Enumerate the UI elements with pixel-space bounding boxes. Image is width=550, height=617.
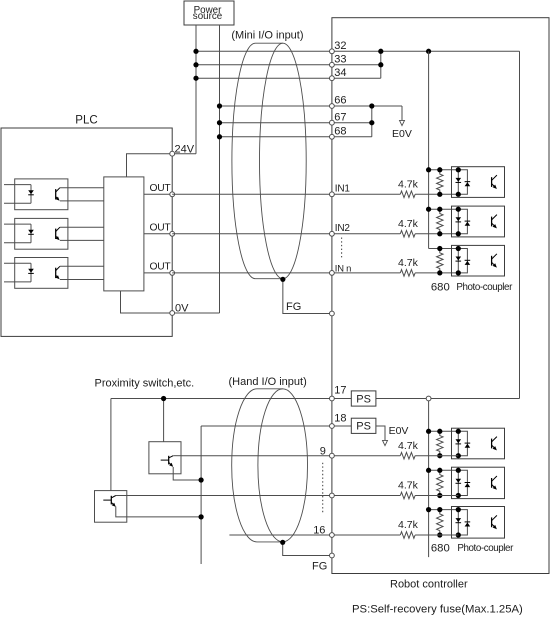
junction 680 bottom U6 xyxy=(437,532,442,537)
wire IN2 to coupler xyxy=(415,233,458,235)
junction diode bottom U5 xyxy=(456,493,461,498)
junction 33-tie xyxy=(378,62,383,67)
photo-coupler U5 box xyxy=(452,467,505,498)
opto-coupler PLC 1 box xyxy=(15,179,68,210)
wire OUT1 driver to PLC edge xyxy=(144,193,172,195)
wire Q2 emitter xyxy=(116,507,201,517)
resistor 680 row U6 xyxy=(437,510,443,535)
svg-text:9: 9 xyxy=(320,446,326,458)
photo-coupler U3 phototransistor xyxy=(491,256,493,266)
terminal 17 xyxy=(330,396,335,401)
junction diode top U1 xyxy=(456,167,461,172)
wire mid to coupler xyxy=(415,495,458,497)
photo-coupler U3 left diode column xyxy=(457,249,459,273)
svg-text:IN1: IN1 xyxy=(335,184,351,195)
photo-coupler U1 left diode column xyxy=(457,170,459,195)
wire INn to coupler xyxy=(415,272,458,274)
switch Q2 transistor xyxy=(103,499,111,501)
junction 680 bottom U4 xyxy=(437,453,442,458)
svg-text:(Hand I/O input): (Hand I/O input) xyxy=(229,376,307,388)
wire 9 line xyxy=(181,455,400,457)
wire row U6 top rail xyxy=(429,509,459,511)
opto-coupler PLC 3 phototransistor xyxy=(55,268,57,278)
robot controller box xyxy=(332,18,549,574)
junction 680 bottom U1 xyxy=(437,192,442,197)
opto-coupler PLC 1 input leads xyxy=(4,184,31,186)
wire 33 line xyxy=(196,64,381,66)
PLC terminal OUT2 xyxy=(170,231,175,236)
photo-coupler U4 diode down xyxy=(456,439,462,443)
photo-coupler U5 phototransistor xyxy=(491,478,493,488)
svg-text:E0V: E0V xyxy=(389,425,409,437)
wire 67 line xyxy=(220,122,372,124)
svg-text:Photo-coupler: Photo-coupler xyxy=(456,282,513,293)
svg-text:FG: FG xyxy=(312,561,327,573)
junction diode top U6 xyxy=(456,507,461,512)
wire 0V to PLC xyxy=(172,312,219,314)
junction diode top U2 xyxy=(456,207,461,212)
photo-coupler U4 phototransistor xyxy=(491,439,493,449)
resistor 4.7k IN2 xyxy=(400,231,415,238)
junction 24V-33 xyxy=(193,62,198,67)
svg-text:PS: PS xyxy=(356,421,371,433)
switch Q1 transistor xyxy=(161,459,169,461)
wire power source left leg 24V rail xyxy=(195,25,197,154)
junction 680 top U1 xyxy=(437,167,442,172)
junction long vertical row U5 xyxy=(426,468,431,473)
svg-text:OUT: OUT xyxy=(150,223,172,234)
resistor 680 row U3 xyxy=(437,249,443,273)
switch Q2 box xyxy=(95,491,127,523)
opto-coupler PLC 1 LED diode xyxy=(28,190,34,194)
wire PLC 0V internal xyxy=(121,291,173,313)
photo-coupler U1 box xyxy=(452,167,505,198)
wire tie 32-33-34 xyxy=(380,51,382,78)
photo-coupler U4 left diode column xyxy=(457,431,459,455)
svg-text:4.7k: 4.7k xyxy=(398,218,419,230)
wire PS2 to E0V xyxy=(376,426,385,440)
wire OUT to INn xyxy=(172,272,400,274)
junction 680 bottom U3 xyxy=(437,270,442,275)
svg-text:OUT: OUT xyxy=(150,183,172,194)
cable Mini I/O tube outline xyxy=(232,43,283,279)
junction 680 top U5 xyxy=(437,468,442,473)
junction 0V-67 xyxy=(217,120,222,125)
cable Mini I/O end-cap ellipse xyxy=(260,43,307,279)
junction 32-longvertical xyxy=(426,49,431,54)
svg-text:67: 67 xyxy=(334,111,346,123)
photo-coupler U1 phototransistor xyxy=(491,177,493,187)
wire long vertical top section xyxy=(428,51,430,248)
opto-coupler PLC 3 LED column xyxy=(30,263,32,282)
terminal 18 xyxy=(330,424,335,429)
svg-text:4.7k: 4.7k xyxy=(398,519,419,531)
photo-coupler U2 diode down xyxy=(456,217,462,221)
photo-coupler U3 diode loop xyxy=(458,249,467,273)
wire row U2 top rail xyxy=(429,208,459,210)
wire 34 line xyxy=(196,77,381,79)
wire 17 line xyxy=(111,398,520,400)
photo-coupler U4 box xyxy=(452,428,505,459)
opto-coupler PLC 3 box xyxy=(15,258,68,289)
svg-text:FG: FG xyxy=(286,301,301,313)
PLC terminal OUT1 xyxy=(170,192,175,197)
wire 66 line xyxy=(220,105,403,107)
opto-coupler PLC 2 phototransistor xyxy=(55,229,57,239)
svg-text:33: 33 xyxy=(334,53,346,65)
wire 18 line xyxy=(201,425,351,427)
junction diode bottom U3 xyxy=(456,270,461,275)
junction 67-tie xyxy=(369,120,374,125)
terminal FG xyxy=(330,553,335,558)
wire opto 2 collector to driver xyxy=(60,226,104,228)
svg-text:24V: 24V xyxy=(175,143,195,155)
photo-coupler U2 phototransistor xyxy=(491,217,493,227)
svg-text:PS:Self-recovery fuse(Max.1.25: PS:Self-recovery fuse(Max.1.25A) xyxy=(352,604,523,616)
wire 16 to coupler xyxy=(415,534,458,536)
terminal 68 xyxy=(330,134,335,139)
svg-text:IN2: IN2 xyxy=(335,223,351,234)
resistor 4.7k IN1 xyxy=(400,191,415,198)
junction FG top cable xyxy=(280,277,285,282)
resistor 4.7k 9 xyxy=(400,452,415,459)
terminal FG xyxy=(330,311,335,316)
svg-text:4.7k: 4.7k xyxy=(398,257,419,269)
junction diode bottom U1 xyxy=(456,192,461,197)
junction diode top U4 xyxy=(456,429,461,434)
junction diode bottom U4 xyxy=(456,453,461,458)
svg-text:OUT: OUT xyxy=(150,262,172,273)
wire FG bottom xyxy=(283,542,332,556)
junction 680 bottom U5 xyxy=(437,493,442,498)
wire E0V return vertical xyxy=(200,426,202,564)
junction FG bottom cable xyxy=(280,540,285,545)
PLC terminal OUT3 xyxy=(170,271,175,276)
junction long vertical row U2 xyxy=(426,207,431,212)
wire OUT2 driver to PLC edge xyxy=(144,233,172,235)
photo-coupler U3 diode down xyxy=(456,257,462,261)
terminal 16 xyxy=(330,533,335,538)
photo-coupler U4 diode loop xyxy=(458,431,467,455)
opto-coupler PLC 3 LED diode xyxy=(28,269,34,273)
photo-coupler U2 diode up xyxy=(465,222,471,226)
wire 16 line xyxy=(229,534,400,536)
wire 24V to PLC xyxy=(172,153,196,155)
junction 24V-32 xyxy=(193,49,198,54)
photo-coupler U6 diode loop xyxy=(458,510,467,535)
wire opto 3 emitter to driver xyxy=(60,279,104,281)
resistor 680 row U2 xyxy=(437,209,443,234)
wire opto 1 emitter to driver xyxy=(60,200,104,202)
junction long vertical row U1 xyxy=(426,167,431,172)
svg-text:4.7k: 4.7k xyxy=(398,179,419,191)
terminal 67 xyxy=(330,120,335,125)
junction Q2 emitter E0V xyxy=(198,514,203,519)
svg-text:Photo-coupler: Photo-coupler xyxy=(457,543,514,554)
photo-coupler U1 diode loop xyxy=(458,170,467,195)
terminal 66 xyxy=(330,104,335,109)
terminal IN2 xyxy=(330,231,335,236)
wire middle line xyxy=(127,495,401,497)
photo-coupler U6 diode up xyxy=(465,523,471,527)
wire 32 line xyxy=(196,50,520,52)
photo-coupler U6 phototransistor xyxy=(491,517,493,527)
svg-text:17: 17 xyxy=(334,385,346,397)
resistor 4.7k INn xyxy=(400,270,415,277)
junction diode top U5 xyxy=(456,468,461,473)
svg-text:PS: PS xyxy=(356,393,371,405)
photo-coupler U3 box xyxy=(452,245,505,276)
svg-text:IN n: IN n xyxy=(335,263,351,274)
junction 66-tie xyxy=(369,103,374,108)
wire IN1 to coupler xyxy=(415,193,458,195)
wire row U1 top rail xyxy=(429,169,459,171)
resistor 680 row U1 xyxy=(437,170,443,195)
opto-coupler PLC 2 LED column xyxy=(30,224,32,243)
photo-coupler U1 diode down xyxy=(456,178,462,182)
fuse PS2 box xyxy=(351,418,376,433)
resistor 680 row U4 xyxy=(437,431,443,455)
opto-coupler PLC 2 input leads xyxy=(4,223,31,225)
E0V arrow bottom xyxy=(383,440,388,445)
switch Q1 box xyxy=(149,442,181,474)
photo-coupler U5 diode up xyxy=(465,483,471,487)
wire OUT3 driver to PLC edge xyxy=(144,272,172,274)
svg-text:680: 680 xyxy=(431,282,450,294)
junction diode bottom U2 xyxy=(456,231,461,236)
PLC terminal 24V xyxy=(170,151,175,156)
cable Hand I/O end-cap ellipse xyxy=(258,389,308,542)
wire row U3 top rail xyxy=(429,248,459,250)
junction long vertical row U6 xyxy=(426,507,431,512)
opto-coupler PLC 1 phototransistor xyxy=(55,189,57,199)
wire opto 3 collector to driver xyxy=(60,265,104,267)
photo-coupler U6 diode down xyxy=(456,518,462,522)
junction 680 top U3 xyxy=(437,246,442,251)
cable Hand I/O tube outline xyxy=(232,389,283,542)
wire 68 line xyxy=(220,136,372,138)
wire OUT to IN1 xyxy=(172,193,400,195)
junction 680 top U2 xyxy=(437,207,442,212)
wire OUT to IN2 xyxy=(172,233,400,235)
wire tie 66-67-68 xyxy=(371,106,373,137)
terminal IN1 xyxy=(330,192,335,197)
terminal 9 xyxy=(330,453,335,458)
wire E0V stub top xyxy=(401,106,403,120)
photo-coupler U2 left diode column xyxy=(457,209,459,234)
wire 9 to coupler xyxy=(415,455,458,457)
svg-text:Proximity switch,etc.: Proximity switch,etc. xyxy=(95,377,195,389)
svg-text:16: 16 xyxy=(313,525,325,537)
junction 0V-66 xyxy=(217,103,222,108)
opto-coupler PLC 1 LED column xyxy=(30,185,32,204)
svg-text:680: 680 xyxy=(431,543,450,555)
junction 32-tie xyxy=(378,49,383,54)
svg-text:E0V: E0V xyxy=(392,128,412,140)
svg-text:4.7k: 4.7k xyxy=(398,480,419,492)
terminal 34 xyxy=(330,76,335,81)
opto-coupler PLC 2 box xyxy=(15,218,68,249)
photo-coupler U2 diode loop xyxy=(458,209,467,234)
svg-text:Robot controller: Robot controller xyxy=(390,579,468,591)
E0V arrow top xyxy=(400,120,405,125)
photo-coupler U5 diode loop xyxy=(458,470,467,495)
fuse PS1 box xyxy=(351,391,376,406)
wire PLC 24V internal xyxy=(127,154,173,177)
junction Q1 emitter E0V xyxy=(198,477,203,482)
photo-coupler U6 box xyxy=(452,507,505,539)
wire long vertical bottom section xyxy=(428,399,430,558)
PLC box xyxy=(1,128,172,336)
PLC driver block xyxy=(104,177,144,291)
dotted continuation 9-16 xyxy=(322,463,324,515)
wire power source right leg 0V rail xyxy=(219,25,221,313)
svg-text:68: 68 xyxy=(334,125,346,137)
dotted continuation IN2-INn xyxy=(341,238,343,260)
photo-coupler U5 diode down xyxy=(456,479,462,483)
wire opto 1 collector to driver xyxy=(60,187,104,189)
photo-coupler U6 left diode column xyxy=(457,510,459,535)
svg-text:PLC: PLC xyxy=(75,114,97,126)
terminal middle xyxy=(330,493,335,498)
resistor 4.7k 16 xyxy=(400,532,415,539)
junction 17-Q1 drop xyxy=(161,396,166,401)
photo-coupler U2 box xyxy=(452,206,505,237)
terminal INn xyxy=(330,271,335,276)
svg-text:66: 66 xyxy=(334,95,346,107)
wire right-side 24V vertical xyxy=(519,51,521,398)
photo-coupler U1 diode up xyxy=(465,182,471,186)
photo-coupler U4 diode up xyxy=(465,444,471,448)
wire row U5 top rail xyxy=(429,469,459,471)
wire Q2 collector to middle line xyxy=(116,495,127,497)
svg-text:34: 34 xyxy=(334,67,346,79)
svg-text:source: source xyxy=(193,11,223,22)
wire drop to switch Q2 xyxy=(110,399,112,491)
svg-text:32: 32 xyxy=(334,40,346,52)
wire opto 2 emitter to driver xyxy=(60,239,104,241)
photo-coupler U5 left diode column xyxy=(457,470,459,495)
photo-coupler U3 diode up xyxy=(465,261,471,265)
opto-coupler PLC 2 LED diode xyxy=(28,230,34,234)
junction 680 top U6 xyxy=(437,507,442,512)
terminal 33 xyxy=(330,62,335,67)
junction 680 bottom U2 xyxy=(437,231,442,236)
wire row U4 top rail xyxy=(429,430,459,432)
junction 0V-68 xyxy=(217,134,222,139)
junction long vertical row U4 xyxy=(426,429,431,434)
wire drop to switch Q1 xyxy=(163,399,165,442)
svg-text:18: 18 xyxy=(334,412,346,424)
svg-text:(Mini I/O input): (Mini I/O input) xyxy=(231,29,303,41)
resistor 4.7k mid xyxy=(400,492,415,499)
svg-text:4.7k: 4.7k xyxy=(398,440,419,452)
power source box xyxy=(184,1,234,25)
junction diode bottom U6 xyxy=(456,532,461,537)
resistor 680 row U5 xyxy=(437,470,443,495)
junction 680 top U4 xyxy=(437,429,442,434)
terminal 32 xyxy=(330,49,335,54)
wire Q1 collector to 9 xyxy=(173,455,181,457)
PLC terminal 0V xyxy=(170,311,175,316)
svg-text:0V: 0V xyxy=(175,303,189,315)
wire FG top xyxy=(283,279,332,314)
junction diode top U3 xyxy=(456,246,461,251)
wire Q1 emitter xyxy=(173,467,201,480)
open circle junction on 17 line xyxy=(426,396,431,401)
opto-coupler PLC 3 input leads xyxy=(4,262,31,264)
junction 24V-34 xyxy=(193,76,198,81)
